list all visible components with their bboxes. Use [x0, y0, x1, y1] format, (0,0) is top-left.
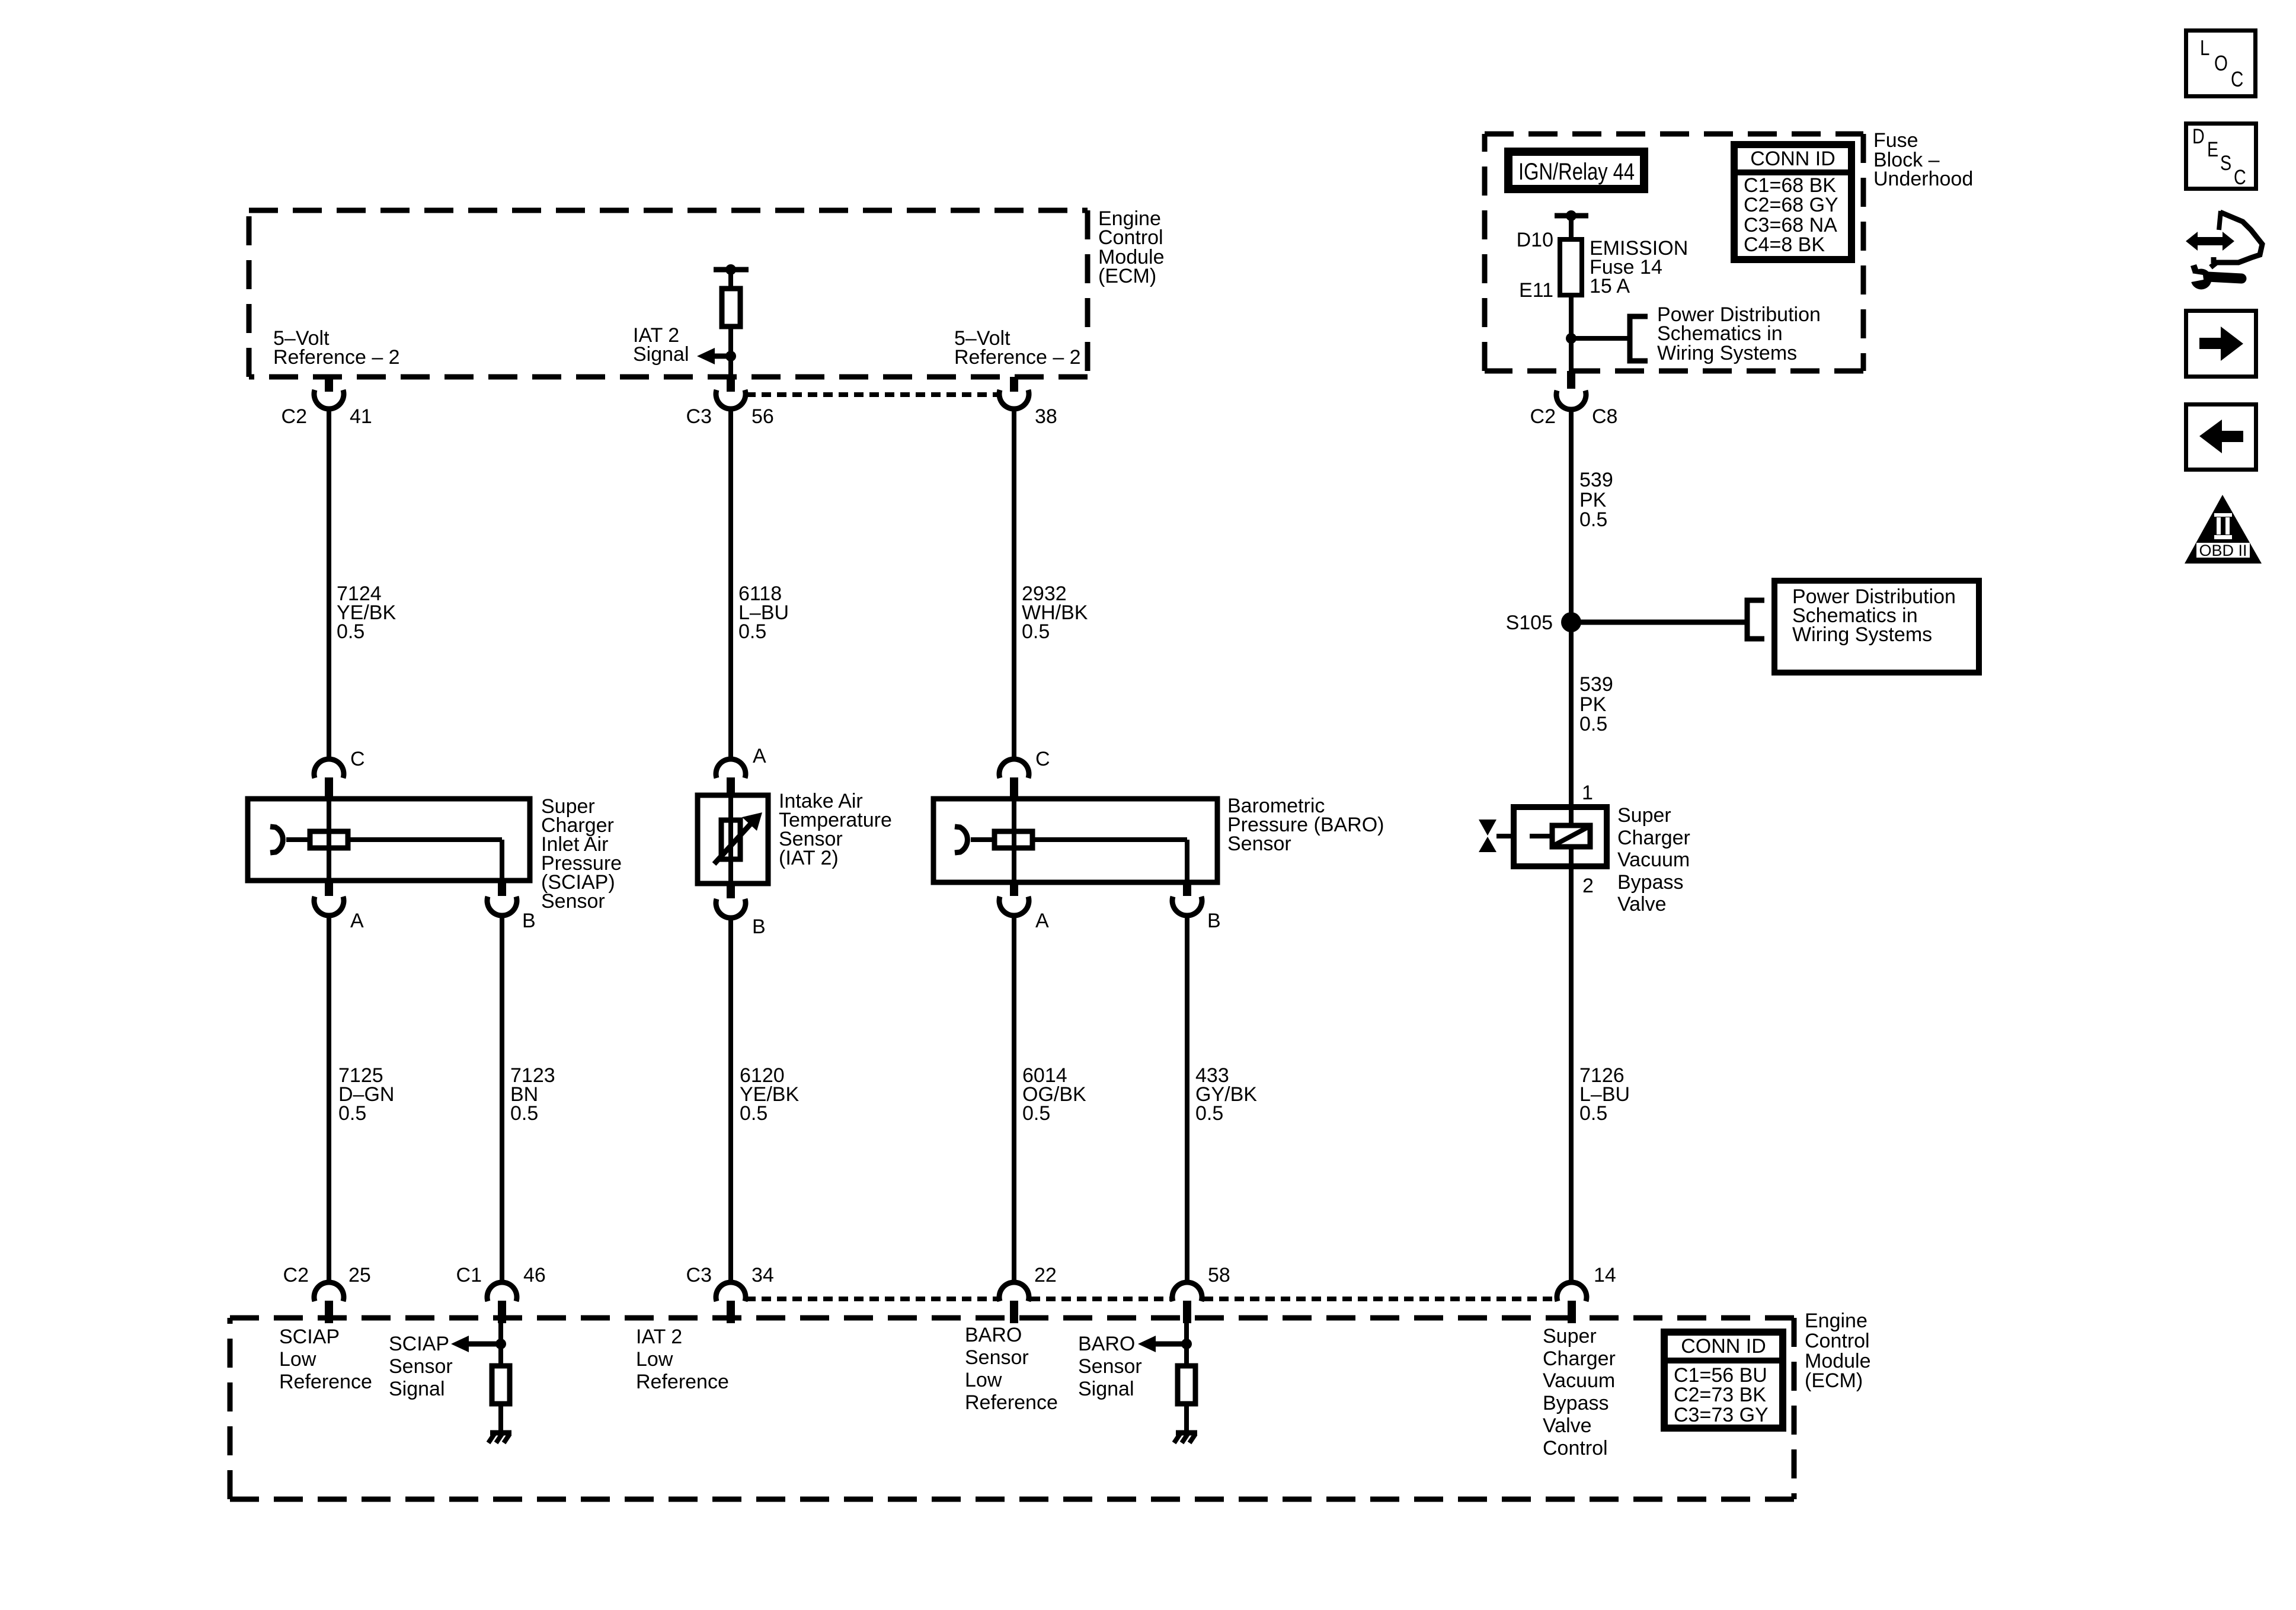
svg-text:Sensor: Sensor: [389, 1355, 453, 1378]
label 6120 YE/BK 0.5: [740, 1064, 799, 1125]
ground (SCIAP signal): [488, 1433, 511, 1443]
dotted connector tie line 34 to 22: [746, 1297, 997, 1301]
arrow SCIAP sensor signal: [451, 1336, 506, 1352]
connector pin A (BARO exit): [999, 882, 1049, 932]
wire 433 vertical: [1185, 914, 1189, 1284]
svg-text:A: A: [753, 745, 766, 767]
wire 6014 vertical: [1012, 914, 1016, 1284]
Fuse Block - Underhood dashed box: [1485, 134, 1863, 371]
svg-text:15 A: 15 A: [1590, 275, 1630, 297]
svg-text:Reference: Reference: [965, 1391, 1058, 1414]
svg-text:Sensor: Sensor: [541, 890, 605, 913]
label BARO Sensor Signal: [1078, 1333, 1142, 1400]
svg-text:SCIAP: SCIAP: [389, 1333, 449, 1355]
svg-text:Wiring Systems: Wiring Systems: [1657, 342, 1797, 364]
ground (BARO signal): [1174, 1433, 1197, 1443]
svg-text:Signal: Signal: [389, 1378, 445, 1400]
svg-text:(ECM): (ECM): [1805, 1369, 1863, 1392]
svg-text:539: 539: [1579, 469, 1613, 491]
svg-text:Low: Low: [279, 1348, 316, 1371]
svg-text:C2: C2: [282, 405, 307, 428]
svg-text:D10: D10: [1517, 229, 1553, 251]
svg-text:Signal: Signal: [1078, 1378, 1134, 1400]
svg-text:O: O: [2214, 51, 2228, 75]
svg-text:C2=68 GY: C2=68 GY: [1744, 194, 1838, 216]
icon vehicle communication with wrench: [2186, 211, 2262, 290]
svg-text:0.5: 0.5: [1022, 620, 1050, 643]
fuse EMISSION Fuse 14 15 A: [1560, 239, 1582, 295]
svg-text:Control: Control: [1543, 1437, 1608, 1459]
svg-text:BARO: BARO: [965, 1324, 1022, 1346]
connector pin 22 (ECM entry): [999, 1264, 1057, 1323]
label 2932 WH/BK 0.5: [1022, 582, 1088, 643]
svg-text:41: 41: [350, 405, 372, 428]
svg-text:CONN ID: CONN ID: [1681, 1335, 1766, 1358]
wire 7123 vertical: [500, 914, 504, 1284]
svg-text:C2=73 BK: C2=73 BK: [1674, 1384, 1766, 1406]
label Intake Air Temperature Sensor (IAT 2): [779, 790, 892, 869]
label 433 GY/BK 0.5: [1195, 1064, 1257, 1125]
svg-text:Super: Super: [1617, 804, 1671, 827]
svg-text:Vacuum: Vacuum: [1543, 1369, 1615, 1392]
Super Charger Vacuum Bypass Valve box: [1514, 807, 1607, 866]
connector pin B (BARO exit): [1172, 882, 1221, 932]
svg-text:C3: C3: [686, 1264, 712, 1286]
svg-text:0.5: 0.5: [337, 620, 364, 643]
svg-text:0.5: 0.5: [1579, 713, 1607, 735]
connector pin C (BARO entry): [999, 748, 1050, 799]
svg-text:Charger: Charger: [1617, 827, 1690, 849]
svg-text:0.5: 0.5: [1022, 1102, 1050, 1125]
svg-text:Valve: Valve: [1543, 1414, 1592, 1437]
dotted connector tie line 22 to 58: [1031, 1297, 1171, 1301]
wire resistor to ground: [1184, 1404, 1189, 1431]
connector C2 pin 41 (ECM exit, wire 1): [282, 377, 372, 428]
ECM top dashed box: [249, 210, 1088, 377]
svg-text:Underhood: Underhood: [1873, 168, 1973, 190]
icon OBD II triangle: [2185, 495, 2262, 564]
svg-text:46: 46: [523, 1264, 546, 1286]
svg-text:58: 58: [1208, 1264, 1230, 1286]
node IAT 2 Signal junction with arrow: [697, 348, 736, 364]
wire S105 to power distribution pointer: [1571, 600, 1764, 639]
wire through BARO box: [1012, 799, 1016, 882]
svg-text:(IAT 2): (IAT 2): [779, 847, 839, 869]
label Power Distribution Schematics in Wiring Systems (fuse block): [1657, 303, 1821, 364]
svg-text:S: S: [2220, 151, 2231, 174]
svg-text:S105: S105: [1506, 612, 1553, 634]
resistor (BARO signal pull): [1178, 1366, 1195, 1404]
label SCIAP Low Reference: [279, 1326, 372, 1393]
wire 539 lower: [1569, 622, 1574, 807]
svg-text:A: A: [1035, 910, 1049, 932]
svg-text:D: D: [2192, 124, 2205, 148]
wire 2932 vertical: [1012, 408, 1016, 761]
dotted connector tie line 58 to 14: [1204, 1297, 1555, 1301]
svg-text:C4=8 BK: C4=8 BK: [1744, 233, 1825, 256]
wire 7125 vertical: [327, 914, 331, 1284]
svg-text:C: C: [350, 748, 365, 770]
wire 6120 vertical: [728, 917, 733, 1284]
wire through valve box: [1569, 807, 1574, 866]
label BARO Sensor Low Reference: [965, 1324, 1058, 1414]
node T-bar above fuse: [1555, 210, 1588, 239]
svg-text:BARO: BARO: [1078, 1333, 1135, 1355]
CONN ID table (ECM bottom): [1664, 1332, 1783, 1428]
arrow BARO sensor signal: [1138, 1336, 1192, 1352]
SCIAP sensor box: [248, 799, 530, 881]
icon arrow left box: [2186, 405, 2256, 470]
thermistor symbol IAT2: [714, 812, 762, 864]
svg-text:A: A: [350, 910, 364, 932]
wire resistor to ground: [498, 1404, 503, 1431]
svg-text:0.5: 0.5: [1579, 1102, 1607, 1125]
svg-text:B: B: [1207, 910, 1221, 932]
svg-text:E11: E11: [1519, 279, 1553, 302]
svg-text:1: 1: [1582, 782, 1593, 804]
svg-text:14: 14: [1594, 1264, 1616, 1286]
connector C1 pin 46 (ECM entry): [456, 1264, 546, 1323]
label 539 PK 0.5 lower: [1579, 673, 1613, 735]
svg-text:Low: Low: [636, 1348, 673, 1371]
connector C3 pin 34 (ECM entry): [686, 1264, 774, 1323]
svg-text:C2: C2: [1530, 405, 1556, 428]
svg-text:Sensor: Sensor: [1227, 833, 1291, 855]
dotted connector tie line C3-56 to 38: [746, 392, 998, 397]
connector pin 38 (ECM exit, wire 3): [999, 377, 1057, 428]
label 6014 OG/BK 0.5: [1022, 1064, 1086, 1125]
label 6118 L-BU 0.5: [738, 582, 789, 643]
label Engine Control Module (ECM) top: [1098, 207, 1165, 287]
svg-text:Reference: Reference: [279, 1371, 372, 1393]
label 539 PK 0.5 upper: [1579, 469, 1613, 531]
wire from resistor to signal node: [728, 327, 733, 377]
resistor (IAT2 pull-up inside ECM): [722, 289, 740, 327]
svg-text:C1: C1: [456, 1264, 482, 1286]
ECM bottom dashed box: [230, 1318, 1794, 1499]
svg-text:Control: Control: [1805, 1330, 1870, 1352]
label 5-Volt Reference - 2 (right): [954, 327, 1081, 369]
icon arrow right box: [2186, 311, 2256, 377]
svg-text:Low: Low: [965, 1369, 1002, 1391]
svg-text:Sensor: Sensor: [1078, 1355, 1142, 1378]
svg-text:539: 539: [1579, 673, 1613, 696]
label SCIAP Sensor Signal with arrow: [389, 1333, 453, 1400]
svg-text:E: E: [2207, 137, 2218, 161]
svg-text:IAT 2: IAT 2: [636, 1326, 682, 1348]
svg-text:Charger: Charger: [1543, 1347, 1616, 1370]
connector C2 pin C8 (fuse block exit): [1530, 371, 1618, 428]
svg-text:B: B: [752, 916, 766, 938]
label IAT 2 Low Reference: [636, 1326, 729, 1393]
svg-text:L: L: [2200, 36, 2209, 59]
icon DESC box: [2186, 124, 2256, 189]
svg-text:SCIAP: SCIAP: [279, 1326, 340, 1348]
label 7126 L-BU 0.5: [1579, 1064, 1630, 1125]
svg-text:C3: C3: [686, 405, 712, 428]
vacuum valve bowtie symbol: [1479, 820, 1552, 852]
wire through IAT2 box: [728, 795, 733, 884]
label Barometric Pressure (BARO) Sensor: [1227, 795, 1384, 855]
label 7125 D-GN 0.5: [338, 1064, 394, 1125]
splice S105: [1506, 612, 1581, 634]
label IAT 2 Signal: [633, 324, 689, 366]
solenoid coil symbol: [1552, 825, 1590, 847]
connector pin A (IAT2 entry): [716, 745, 766, 795]
connector pin B (IAT2 exit): [716, 884, 766, 938]
svg-text:56: 56: [752, 405, 774, 428]
connector C3 pin 56 (ECM exit, wire 2): [686, 377, 774, 428]
svg-text:Bypass: Bypass: [1617, 871, 1684, 894]
icon LOC box: [2186, 31, 2256, 97]
wire 58 to resistor: [1184, 1323, 1189, 1366]
connector pin A (SCIAP exit): [314, 881, 364, 932]
Power Distribution Schematics box: [1774, 581, 1979, 673]
svg-text:C: C: [2231, 67, 2243, 91]
connector pin B (SCIAP exit): [487, 881, 536, 932]
label Super Charger Inlet Air Pressure (SCIAP) Sensor: [541, 795, 622, 913]
label 7124 YE/BK 0.5: [337, 582, 396, 643]
SCIAP transducer symbol: [270, 827, 502, 881]
svg-text:0.5: 0.5: [510, 1102, 538, 1125]
svg-text:C8: C8: [1592, 405, 1617, 428]
svg-text:Valve: Valve: [1617, 893, 1667, 916]
label Engine Control Module (ECM) bottom: [1805, 1310, 1871, 1392]
svg-text:CONN ID: CONN ID: [1750, 148, 1835, 170]
svg-text:0.5: 0.5: [338, 1102, 366, 1125]
wire 7124 vertical: [327, 408, 331, 761]
svg-text:Engine: Engine: [1805, 1310, 1868, 1332]
svg-text:C2: C2: [283, 1264, 309, 1286]
svg-text:Reference – 2: Reference – 2: [273, 346, 400, 369]
svg-text:2: 2: [1582, 875, 1594, 897]
node T-bar inside ECM for IAT2 pull-up: [714, 264, 749, 289]
svg-text:C3=73 GY: C3=73 GY: [1674, 1404, 1769, 1426]
svg-text:Signal: Signal: [633, 343, 689, 366]
svg-text:IGN/Relay 44: IGN/Relay 44: [1518, 159, 1635, 185]
svg-text:Super: Super: [1543, 1325, 1597, 1347]
connector pin 14 (ECM entry): [1557, 1264, 1616, 1323]
svg-text:Bypass: Bypass: [1543, 1392, 1609, 1414]
svg-text:C: C: [2234, 165, 2246, 188]
node junction to power distribution: [1566, 316, 1648, 361]
svg-text:0.5: 0.5: [738, 620, 766, 643]
svg-text:Reference: Reference: [636, 1371, 729, 1393]
wire 6118 vertical: [728, 408, 733, 761]
label 7123 BN 0.5: [510, 1064, 555, 1125]
svg-text:25: 25: [348, 1264, 371, 1286]
svg-text:Vacuum: Vacuum: [1617, 849, 1690, 871]
svg-text:0.5: 0.5: [1195, 1102, 1223, 1125]
wire 46 to resistor: [498, 1323, 503, 1366]
svg-text:34: 34: [752, 1264, 774, 1286]
svg-text:0.5: 0.5: [1579, 508, 1607, 531]
svg-text:C: C: [1035, 748, 1050, 770]
resistor (SCIAP signal pull): [492, 1366, 510, 1404]
label Super Charger Vacuum Bypass Valve Control: [1543, 1325, 1616, 1459]
BARO transducer symbol: [955, 827, 1187, 882]
svg-text:OBD II: OBD II: [2199, 542, 2247, 559]
wire 7126 vertical: [1569, 866, 1574, 1284]
IAT2 sensor box: [698, 795, 768, 884]
connector pin 58 (ECM entry): [1172, 1264, 1230, 1323]
svg-text:Wiring Systems: Wiring Systems: [1792, 623, 1932, 646]
CONN ID table (fuse block): [1734, 145, 1851, 260]
wire below fuse: [1569, 295, 1574, 371]
label Super Charger Vacuum Bypass Valve: [1617, 804, 1690, 916]
svg-text:22: 22: [1034, 1264, 1057, 1286]
label EMISSION Fuse 14 15 A: [1590, 237, 1688, 297]
wire 539 upper: [1569, 408, 1574, 622]
svg-text:38: 38: [1035, 405, 1057, 428]
label 5-Volt Reference - 2 (left): [273, 327, 400, 369]
svg-text:(ECM): (ECM): [1098, 265, 1156, 287]
svg-text:Sensor: Sensor: [965, 1346, 1029, 1369]
wire through SCIAP box: [327, 799, 331, 881]
connector pin C (SCIAP sensor entry): [314, 748, 365, 799]
connector C2 pin 25 (ECM entry): [283, 1264, 371, 1323]
BARO sensor box: [933, 799, 1217, 882]
label Fuse Block - Underhood: [1873, 129, 1973, 190]
svg-text:B: B: [522, 910, 536, 932]
IGN/Relay 44 box: [1508, 152, 1644, 189]
svg-text:Reference – 2: Reference – 2: [954, 346, 1081, 369]
svg-text:0.5: 0.5: [740, 1102, 768, 1125]
